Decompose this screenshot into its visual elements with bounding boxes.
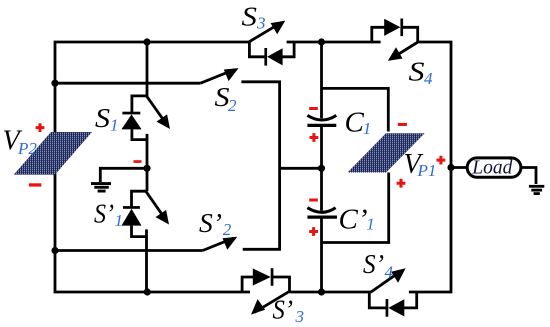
svg-text:Load: Load <box>471 158 512 179</box>
svg-text:1: 1 <box>363 119 372 138</box>
svg-text:4: 4 <box>424 69 433 88</box>
svg-text:S’: S’ <box>94 199 114 229</box>
svg-text:C’: C’ <box>339 203 368 235</box>
svg-text:S’: S’ <box>199 208 222 238</box>
svg-text:4: 4 <box>385 262 394 281</box>
svg-text:S: S <box>242 1 258 31</box>
svg-text:2: 2 <box>223 220 232 239</box>
svg-text:S: S <box>409 56 426 86</box>
svg-text:S: S <box>95 103 111 133</box>
svg-text:1: 1 <box>110 115 119 134</box>
svg-text:1: 1 <box>366 215 375 234</box>
svg-text:2: 2 <box>228 96 237 115</box>
svg-text:S’: S’ <box>273 294 294 324</box>
svg-text:1: 1 <box>115 211 124 230</box>
svg-text:P1: P1 <box>417 161 437 180</box>
svg-text:P2: P2 <box>17 139 37 158</box>
svg-text:S’: S’ <box>363 249 384 279</box>
svg-text:3: 3 <box>256 13 266 32</box>
svg-text:C: C <box>345 106 365 138</box>
svg-text:3: 3 <box>295 307 305 326</box>
